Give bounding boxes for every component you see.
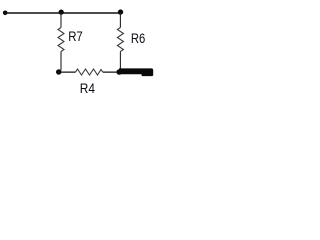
resistor R4: [76, 69, 103, 75]
node A (left terminal dot): [3, 11, 8, 16]
wire R7 bottom lead: [60, 52, 62, 71]
node C (R6 top): [118, 9, 123, 14]
wire R6 top lead: [119, 13, 121, 28]
svg-text:R6: R6: [131, 31, 146, 46]
wire R6 bottom lead: [119, 52, 121, 71]
resistor R7: [58, 28, 64, 52]
resistor R6: [117, 28, 123, 52]
wire top horizontal: [5, 12, 121, 14]
wire R7 top lead: [60, 13, 62, 28]
node B (junction of R7 top): [59, 10, 64, 15]
node E (bottom right junction): [116, 69, 122, 75]
wire bottom left segment: [59, 71, 76, 73]
wire bottom right segment: [103, 71, 119, 73]
svg-text:R7: R7: [68, 29, 83, 44]
svg-text:R4: R4: [80, 81, 96, 96]
node D (R7 bottom / R4 left junction): [56, 69, 61, 74]
thick terminal bar: [119, 68, 153, 76]
